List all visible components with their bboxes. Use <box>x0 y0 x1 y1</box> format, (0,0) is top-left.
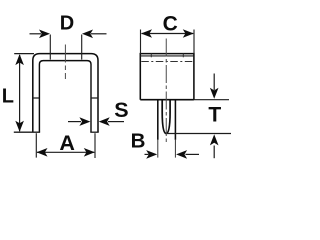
right leg bottom edge <box>90 131 98 133</box>
T down arrow <box>213 74 215 91</box>
front view centerline <box>64 45 66 81</box>
T bottom extension line <box>167 133 231 135</box>
C arrow left <box>141 29 152 38</box>
A arrow left <box>37 148 48 157</box>
clip front view inner contour <box>39 61 91 133</box>
prong left edge <box>157 100 159 140</box>
hidden line dash-dot <box>141 61 193 63</box>
C extension line left <box>140 30 142 54</box>
prong right edge <box>174 100 176 140</box>
T top extension line <box>194 99 229 101</box>
spring slot U <box>162 100 170 134</box>
hidden slot tick right <box>182 54 184 58</box>
dimension L line <box>19 55 21 131</box>
C extension line right <box>193 30 195 54</box>
L arrow down <box>15 121 24 132</box>
T up arrow <box>213 146 215 159</box>
svg-text:A: A <box>59 131 75 155</box>
B dimension right arrow <box>186 153 200 155</box>
right leg tick <box>91 97 98 99</box>
svg-text:D: D <box>60 13 74 35</box>
svg-text:B: B <box>131 129 146 152</box>
clip front view outer contour <box>33 54 98 133</box>
L arrow up <box>15 54 24 65</box>
A dimension line <box>37 151 94 153</box>
flange bottom edge <box>140 99 194 101</box>
svg-text:S: S <box>114 98 128 122</box>
A extension line right <box>94 133 96 158</box>
svg-text:C: C <box>163 12 178 35</box>
side view top underside line <box>140 55 194 57</box>
B extension line right <box>174 140 176 158</box>
D extension line right <box>81 35 83 60</box>
B dimension left arrow <box>145 153 149 155</box>
svg-text:T: T <box>208 104 221 127</box>
hidden slot tick left <box>150 54 152 58</box>
L top extension line <box>14 53 34 55</box>
A arrow right <box>84 148 95 157</box>
left leg bottom edge + L extension line <box>14 131 40 133</box>
D dimension left arrow <box>30 33 42 35</box>
S dimension inner arrow <box>68 121 81 123</box>
D extension line left <box>49 35 51 60</box>
B extension line left <box>157 140 159 158</box>
D dimension right arrow <box>91 33 107 35</box>
side view centerline <box>165 39 167 144</box>
S dimension outer arrow <box>108 121 124 123</box>
side view body outline <box>140 54 194 100</box>
A extension line left <box>35 133 37 157</box>
C arrow right <box>183 29 194 38</box>
C dimension line <box>142 33 194 35</box>
left leg tick <box>33 97 40 99</box>
svg-text:L: L <box>2 86 14 108</box>
